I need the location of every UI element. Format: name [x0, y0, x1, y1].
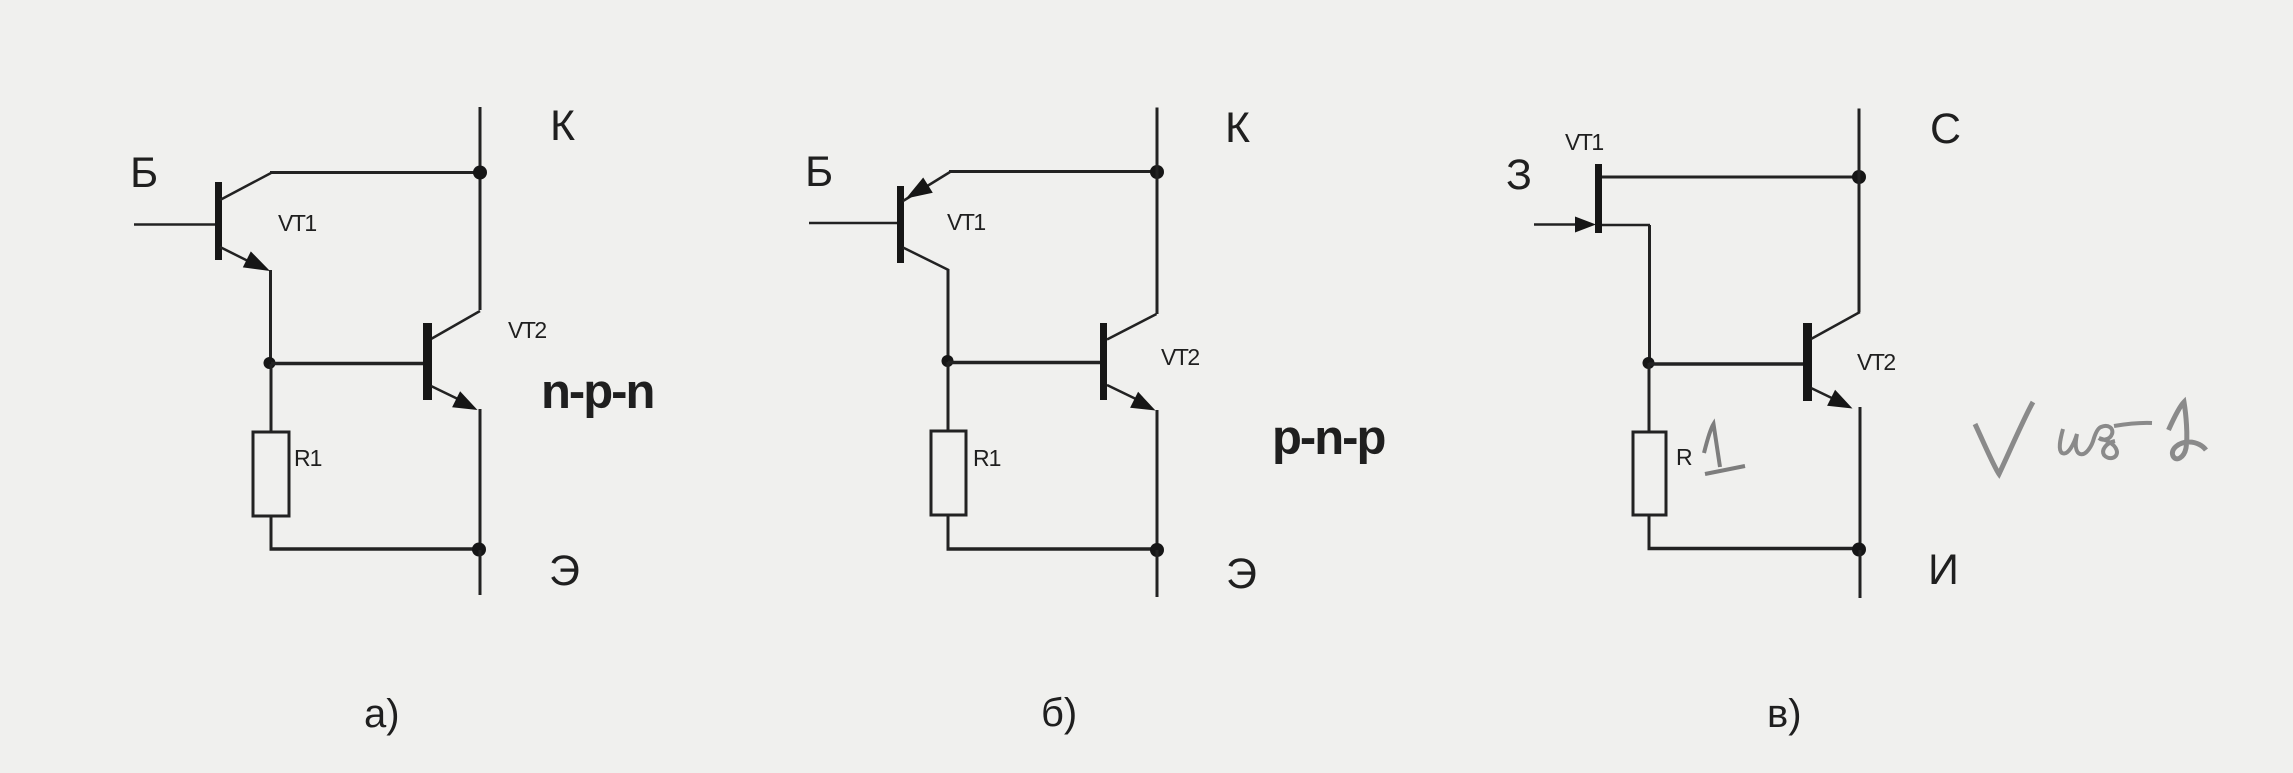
svg-text:VT1: VT1: [947, 209, 985, 235]
svg-text:p-n-p: p-n-p: [1272, 411, 1384, 465]
arrow emitter of VT2 (circuit a): [452, 391, 477, 410]
wire emitter horizontal to node K (circuit b): [949, 170, 1157, 173]
wire VT2 emitter vertical (circuit b): [1156, 410, 1159, 550]
wire VT2 collector diagonal (circuit b): [1107, 314, 1157, 340]
wire node to R1 top (circuit a): [270, 364, 273, 432]
wire R1 bottom down (circuit b): [947, 515, 950, 551]
svg-text:VT2: VT2: [1857, 349, 1895, 375]
wire VT2 collector diagonal (circuit a): [431, 311, 480, 339]
wire VT1 emitter down to node (circuit a): [269, 270, 272, 364]
handwritten digit 1 (annotation): [2169, 402, 2207, 459]
svg-text:R: R: [1676, 444, 1693, 470]
arrow emitter of VT1 (circuit a): [243, 251, 270, 271]
junction node И (circuit v): [1852, 543, 1866, 557]
resistor R1 (circuit b): [931, 431, 966, 515]
svg-text:З: З: [1506, 151, 1532, 199]
wire VT2 emitter diagonal (circuit v): [1811, 388, 1838, 401]
transistor VT2 (circuit v) base bar: [1803, 323, 1812, 401]
wire emitter stub below node (circuit a): [479, 550, 482, 595]
junction node base of VT2 (circuit a): [264, 357, 276, 369]
wire VT2 emitter vertical (circuit v): [1859, 407, 1862, 549]
handwritten overbar dash (annotation): [2114, 423, 2152, 426]
wire R bottom down (circuit v): [1648, 515, 1651, 550]
svg-text:К: К: [1225, 104, 1250, 152]
wire VT2 collector diagonal (circuit v): [1811, 312, 1860, 339]
wire VT2 base horizontal (circuit a): [271, 362, 423, 366]
svg-text:К: К: [550, 102, 575, 150]
wire VT2 emitter diagonal (circuit b): [1107, 385, 1138, 400]
wire base lead into VT1 (circuit a): [134, 223, 215, 226]
svg-text:VT2: VT2: [508, 317, 546, 343]
wire gate lead (circuit v): [1534, 223, 1577, 226]
wire node to R1 top (circuit b): [947, 362, 950, 431]
junction node base of VT2 (circuit b): [942, 355, 954, 367]
svg-text:Б: Б: [130, 149, 158, 197]
handwritten digit 1 next to R (circuit v): [1704, 424, 1745, 474]
wire VT1 emitter diagonal (circuit a): [220, 247, 258, 266]
junction node K (circuit b): [1150, 165, 1164, 179]
wire VT2 emitter diagonal (circuit a): [431, 386, 462, 401]
svg-text:Э: Э: [549, 547, 580, 595]
junction node K (circuit a): [473, 166, 487, 180]
svg-text:а): а): [364, 692, 400, 736]
transistor VT2 (circuit a) base bar: [423, 323, 432, 400]
arrow emitter of VT1 pointing into bar (circuit b): [906, 178, 933, 199]
wire VT2 base horizontal (circuit v): [1649, 362, 1803, 366]
svg-text:VT1: VT1: [278, 210, 316, 236]
wire emitter stub below node (circuit b): [1156, 550, 1159, 597]
resistor R1 (circuit a): [253, 432, 289, 516]
wire collector vertical rail (circuit a): [479, 107, 482, 310]
svg-text:R1: R1: [294, 445, 322, 471]
wire source lead right (circuit v): [1602, 224, 1650, 227]
wire VT1 emitter diagonal (circuit b): [903, 172, 950, 201]
arrow emitter of VT2 (circuit b): [1130, 392, 1155, 411]
wire bottom horizontal to emitter rail (circuit a): [270, 547, 480, 551]
wire collector vertical rail (circuit b): [1156, 108, 1159, 315]
svg-text:n-p-n: n-p-n: [541, 365, 653, 419]
resistor R (circuit v): [1633, 432, 1666, 515]
wire source stub below node (circuit v): [1859, 550, 1862, 598]
svg-text:С: С: [1930, 105, 1961, 153]
svg-text:R1: R1: [973, 445, 1001, 471]
handwritten check mark V (annotation): [1975, 402, 2033, 474]
wire drain vertical rail (circuit v): [1858, 109, 1861, 313]
junction node C (circuit v): [1852, 170, 1866, 184]
svg-text:Б: Б: [805, 148, 833, 196]
wire node to R top (circuit v): [1648, 363, 1651, 432]
wire R1 bottom down (circuit a): [270, 516, 273, 551]
arrow gate of VT1 (circuit v): [1575, 217, 1596, 233]
wire bottom horizontal to source rail (circuit v): [1648, 547, 1861, 551]
arrow emitter of VT2 (circuit v): [1827, 390, 1852, 409]
wire drain horizontal to node C (circuit v): [1602, 176, 1859, 179]
svg-text:И: И: [1928, 546, 1959, 594]
transistor VT1 channel bar (circuit v): [1595, 164, 1602, 233]
svg-text:VT2: VT2: [1161, 344, 1199, 370]
wire source vertical down (circuit v): [1648, 225, 1651, 363]
junction node Э (circuit a): [472, 543, 486, 557]
svg-text:VT1: VT1: [1565, 129, 1603, 155]
transistor VT1 (circuit a) base bar: [215, 182, 222, 260]
wire VT1 collector vertical down (circuit b): [947, 269, 950, 362]
wire VT2 base horizontal (circuit b): [948, 361, 1100, 365]
junction node base of VT2 (circuit v): [1643, 357, 1655, 369]
handwritten word annotation: [2060, 426, 2117, 458]
svg-text:в): в): [1767, 692, 1802, 736]
transistor VT2 (circuit b) base bar: [1100, 323, 1107, 400]
junction node Э (circuit b): [1150, 543, 1164, 557]
wire bottom horizontal to emitter rail (circuit b): [947, 547, 1158, 551]
svg-text:б): б): [1041, 691, 1077, 735]
wire VT1 collector diagonal (circuit a): [220, 173, 271, 200]
wire VT1 collector diagonal (circuit b): [903, 248, 949, 271]
wire collector horizontal to node K (circuit a): [270, 171, 480, 174]
svg-text:Э: Э: [1226, 550, 1257, 598]
wire VT2 emitter vertical (circuit a): [479, 409, 482, 549]
wire base lead into VT1 (circuit b): [809, 222, 897, 225]
transistor VT1 (circuit b) base bar: [897, 186, 904, 263]
